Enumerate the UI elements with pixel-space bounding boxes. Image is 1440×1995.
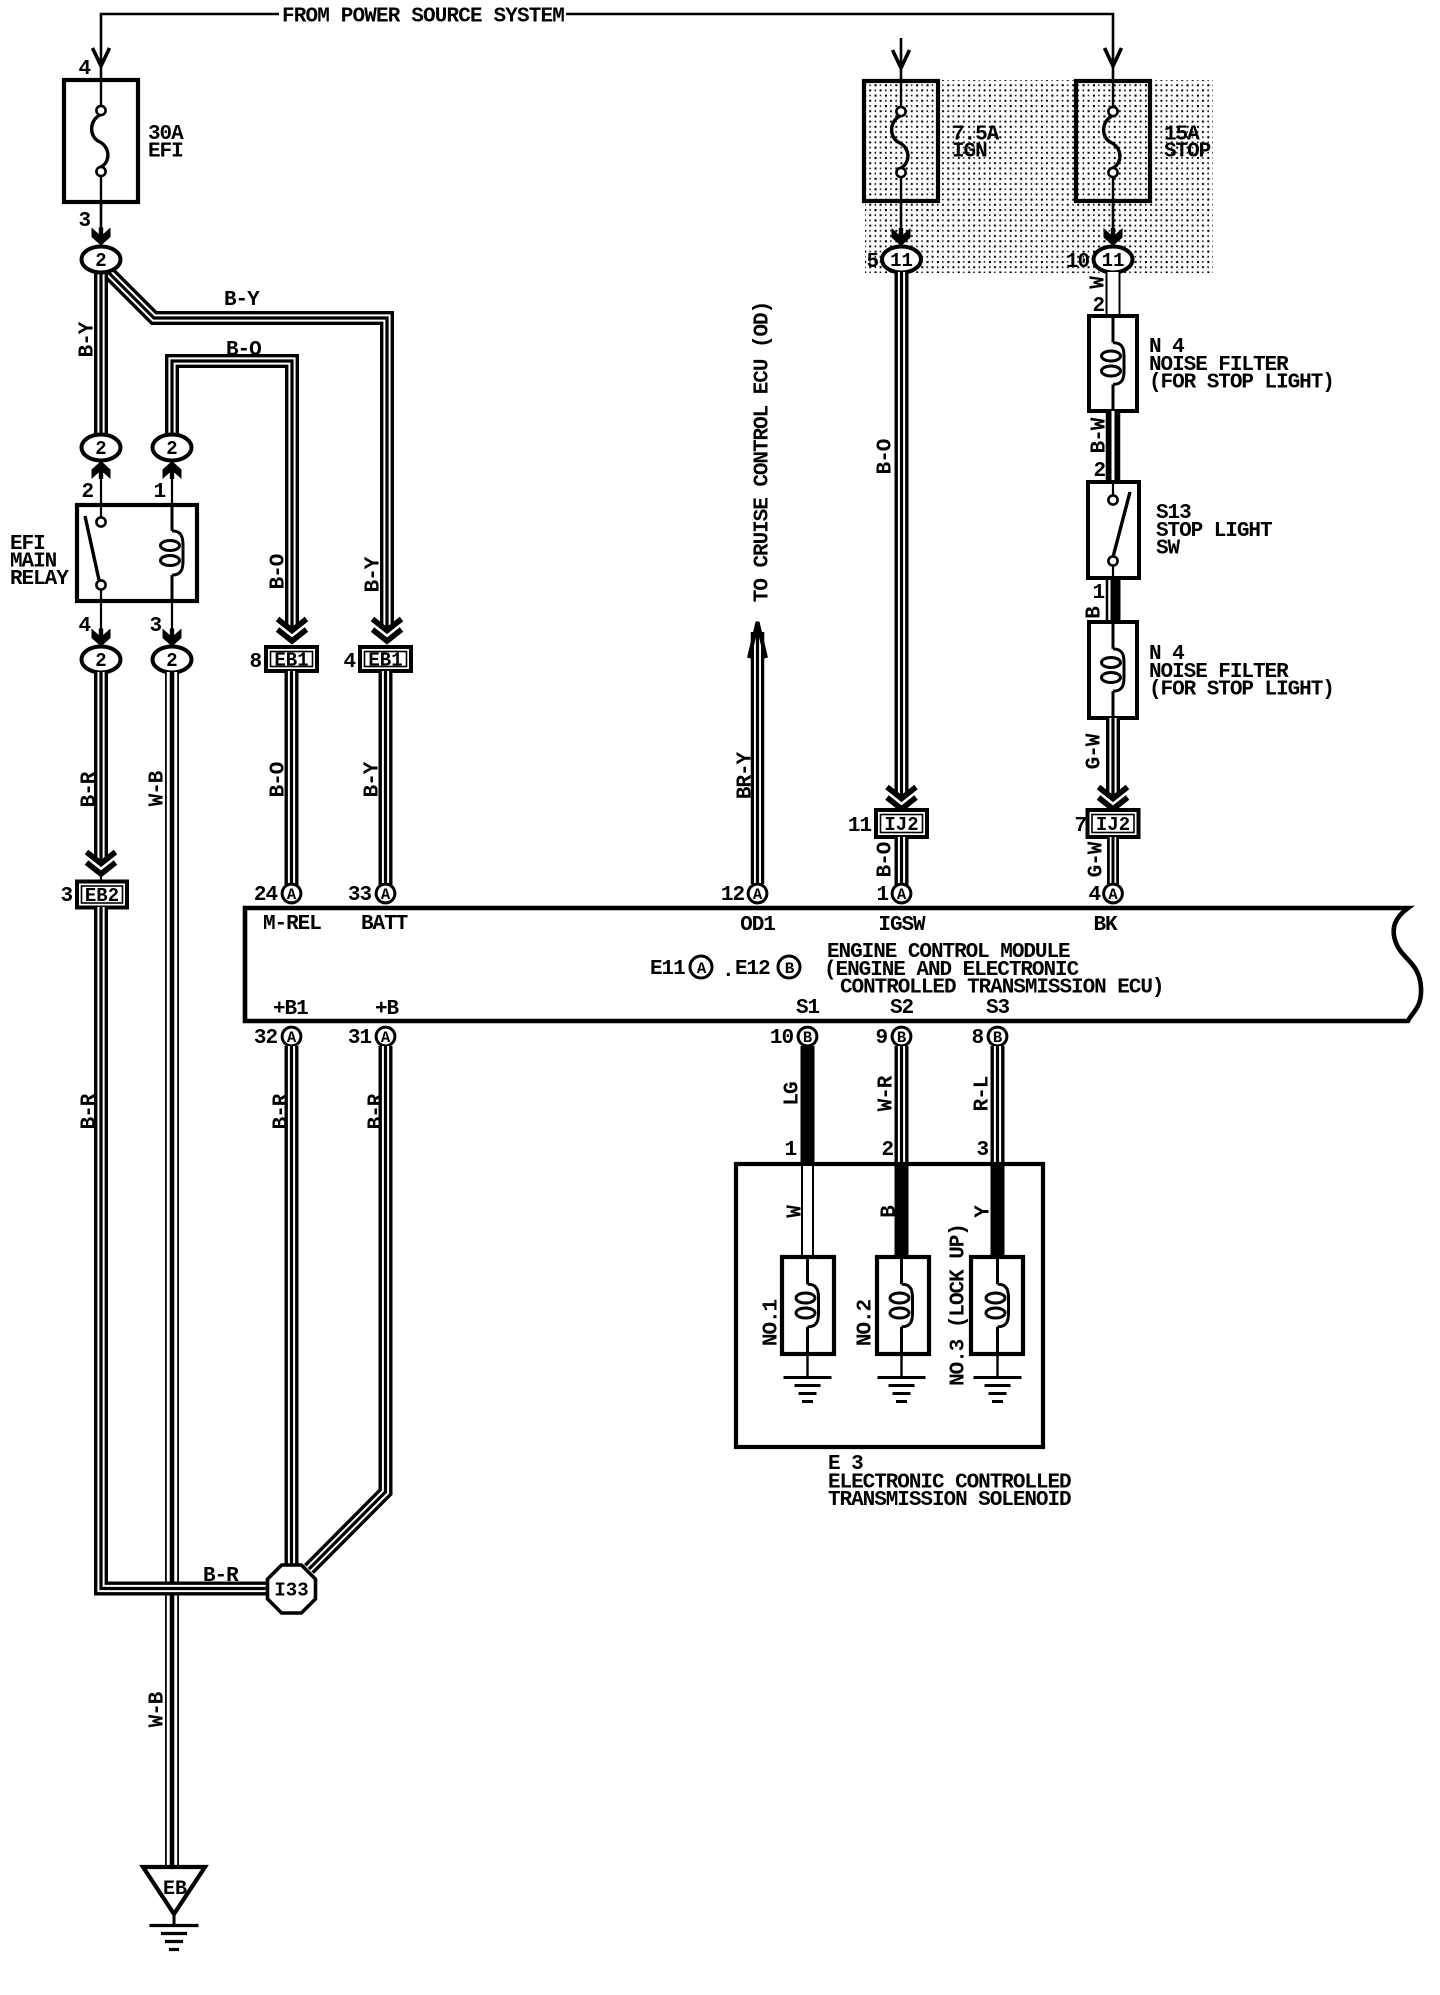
ECU box outline	[245, 908, 1421, 1021]
svg-text:2: 2	[81, 481, 93, 504]
ECU pin 31 +B	[376, 1027, 395, 1047]
svg-text:R-L: R-L	[972, 1076, 995, 1111]
svg-text:4: 4	[343, 651, 355, 674]
wire BR-Y from OD1	[751, 632, 765, 884]
svg-text:1: 1	[784, 1139, 796, 1162]
svg-text:G-W: G-W	[1086, 841, 1109, 877]
svg-text:A: A	[897, 886, 907, 904]
ground EB triangle	[143, 1867, 205, 1914]
svg-text:S2: S2	[890, 997, 914, 1020]
connector node 11 (IGN)	[882, 247, 921, 273]
svg-text:RELAY: RELAY	[10, 568, 69, 591]
svg-text:1: 1	[1092, 582, 1104, 605]
wire G-W filter to IJ2	[1106, 718, 1120, 796]
junction connector 3 EB2	[77, 882, 127, 908]
svg-text:IGSW: IGSW	[878, 914, 926, 937]
svg-text:IJ2: IJ2	[884, 814, 918, 836]
arrow into node	[892, 228, 911, 246]
wire W-B to ground	[165, 672, 179, 1866]
arrow into 7 IJ2	[1099, 787, 1128, 809]
junction I33 octagon	[268, 1565, 316, 1613]
junction connector 4 EB1	[360, 647, 411, 672]
svg-text:4: 4	[78, 58, 90, 81]
ECU pin 33 BATT	[376, 884, 395, 904]
svg-text:Y: Y	[973, 1205, 996, 1218]
wire - fuse to connector	[100, 202, 103, 232]
svg-text:IJ2: IJ2	[1096, 814, 1130, 836]
svg-text:2: 2	[166, 650, 177, 672]
svg-text:11: 11	[890, 250, 913, 272]
svg-text:31: 31	[348, 1027, 372, 1050]
svg-text:NO.3 (LOCK UP): NO.3 (LOCK UP)	[948, 1224, 971, 1386]
junction connector 7 IJ2	[1088, 810, 1139, 837]
svg-text:B: B	[785, 960, 795, 978]
fuse 30A EFI	[64, 80, 138, 202]
connector node 2 (W-B)	[153, 647, 192, 673]
arrow into 4 EB1	[373, 619, 402, 641]
wire LG S1 (thick)	[801, 1046, 815, 1163]
wire - relay pin 4 down	[100, 589, 102, 632]
svg-text:.: .	[722, 960, 734, 983]
svg-text:B-Y: B-Y	[363, 556, 386, 592]
solenoid NO.3 coil	[986, 1259, 1009, 1352]
switch S13 contact bottom	[1108, 556, 1117, 565]
solenoid NO.1 coil box	[782, 1257, 834, 1354]
svg-text:BK: BK	[1093, 914, 1118, 937]
arrow into 8 EB1	[278, 619, 307, 641]
arrow into node	[92, 228, 111, 246]
wire B-W filter to switch	[1106, 411, 1121, 482]
svg-text:4: 4	[78, 615, 90, 638]
fuse 15A STOP	[1076, 81, 1150, 201]
svg-text:8: 8	[971, 1027, 983, 1050]
svg-text:3: 3	[60, 885, 72, 908]
wire B-O from IGN node	[895, 272, 909, 796]
svg-text:10: 10	[1066, 251, 1090, 274]
svg-text:A: A	[287, 1029, 297, 1047]
arrowhead into 30A EFI fuse	[93, 48, 110, 66]
wire B-Y branch to EB1	[104, 268, 387, 628]
svg-text:2: 2	[95, 650, 106, 672]
relay switch lever	[85, 516, 99, 580]
svg-text:1: 1	[876, 884, 888, 907]
junction connector 8 EB1	[266, 647, 317, 672]
wire B inside (S2) thick	[895, 1164, 909, 1258]
wire stub	[100, 873, 102, 882]
relay switch contact bottom	[96, 580, 105, 589]
svg-text:EB: EB	[163, 1878, 187, 1901]
svg-text:TO CRUISE CONTROL ECU (OD): TO CRUISE CONTROL ECU (OD)	[752, 302, 775, 602]
svg-text:A: A	[697, 960, 707, 978]
ECU pin 1 IGSW	[892, 884, 911, 904]
svg-text:A: A	[381, 886, 391, 904]
solenoid box E3	[736, 1164, 1043, 1447]
ground NO.3	[996, 1354, 998, 1377]
svg-text:2: 2	[166, 438, 177, 460]
solenoid NO.3 coil box	[971, 1257, 1023, 1354]
arrowhead into 15A STOP fuse	[1105, 48, 1122, 66]
svg-text:OD1: OD1	[740, 914, 775, 937]
svg-text:NO.2: NO.2	[855, 1299, 878, 1346]
svg-text:B-Y: B-Y	[224, 289, 260, 312]
wire - IGN fuse to connector	[900, 201, 903, 232]
svg-text:LG: LG	[782, 1082, 805, 1106]
svg-text:2: 2	[95, 250, 106, 272]
wire R-L S3	[991, 1046, 1005, 1163]
svg-text:B: B	[993, 1029, 1002, 1047]
svg-text:EB1: EB1	[274, 650, 308, 672]
svg-text:32: 32	[254, 1027, 278, 1050]
relay switch contact top	[96, 517, 105, 526]
svg-text:A: A	[1108, 886, 1118, 904]
svg-text:B-R: B-R	[271, 1093, 294, 1129]
svg-text:A: A	[381, 1029, 391, 1047]
arrow up into coil node	[163, 461, 182, 479]
junction connector 11 IJ2	[876, 810, 927, 837]
connector node 11 (STOP)	[1094, 247, 1133, 273]
svg-text:EFI: EFI	[148, 141, 183, 164]
connector node 2 (relay coil)	[153, 435, 192, 461]
wire W inside (S1)	[801, 1166, 814, 1258]
arrow into EB2	[87, 852, 116, 874]
wire - STOP fuse to connector	[1112, 201, 1115, 232]
svg-text:11: 11	[1102, 250, 1125, 272]
svg-text:BR-Y: BR-Y	[735, 751, 758, 799]
svg-text:S3: S3	[986, 997, 1010, 1020]
wire B switch to filter	[1106, 578, 1109, 622]
svg-text:A: A	[753, 886, 763, 904]
svg-text:4: 4	[1088, 884, 1100, 907]
wire B-Y to relay node	[94, 270, 108, 436]
wire B-Y to BATT	[379, 671, 393, 885]
ground EB symbol	[173, 1914, 176, 1926]
connector node 2 (relay switch)	[82, 435, 121, 461]
connector node 2 (fuse side)	[82, 247, 121, 273]
svg-text:W: W	[1088, 276, 1111, 289]
svg-text:10: 10	[770, 1027, 794, 1050]
svg-text:3: 3	[976, 1139, 988, 1162]
svg-text:S1: S1	[796, 997, 820, 1020]
wire B-O to M-REL	[285, 671, 299, 885]
svg-text:E12: E12	[735, 958, 770, 981]
connector node 2 (B-R)	[82, 647, 121, 673]
arrowhead to cruise control	[749, 622, 766, 660]
svg-text:5: 5	[866, 251, 878, 274]
switch S13 lever	[1113, 492, 1130, 557]
svg-text:M-REL: M-REL	[263, 913, 321, 936]
arrow into node	[1104, 228, 1123, 246]
wire W node to filter	[1106, 272, 1121, 316]
svg-text:B-Y: B-Y	[362, 761, 385, 797]
svg-text:BATT: BATT	[361, 913, 408, 936]
switch S13 contact top	[1108, 495, 1117, 504]
noise filter N4 upper coil	[1102, 318, 1125, 409]
svg-text:2: 2	[881, 1139, 893, 1162]
wire B-O to EB1	[172, 361, 292, 628]
svg-text:+B: +B	[375, 998, 400, 1021]
svg-text:33: 33	[348, 884, 372, 907]
noise filter N4 lower box	[1089, 622, 1137, 718]
svg-text:B: B	[803, 1029, 812, 1047]
switch S13 box	[1088, 482, 1139, 578]
svg-text:2: 2	[1093, 460, 1105, 483]
svg-text:9: 9	[875, 1027, 887, 1050]
svg-text:B-R: B-R	[366, 1093, 389, 1129]
svg-text:NO.1: NO.1	[761, 1299, 784, 1346]
arrow into 11 IJ2	[887, 787, 916, 809]
wire B-R from +B to I33	[309, 1046, 386, 1569]
fuse 7.5A IGN	[864, 81, 938, 201]
svg-text:3: 3	[78, 210, 90, 233]
wire - node to relay pin 1	[171, 478, 173, 527]
wire B-O to IGSW	[895, 837, 909, 885]
relay coil	[161, 505, 184, 601]
wire Y inside (S3) thick	[991, 1164, 1005, 1258]
wire W-R S2	[895, 1046, 909, 1163]
svg-text:B-O: B-O	[226, 339, 261, 362]
svg-text:B: B	[1084, 606, 1107, 619]
wire B-R from +B1 to I33	[285, 1046, 299, 1567]
svg-text:W-B: W-B	[147, 770, 170, 806]
svg-text:B-O: B-O	[268, 762, 291, 797]
wire B-R to I33	[101, 907, 267, 1589]
wire B-R to EB2	[94, 672, 108, 861]
noise filter N4 lower coil	[1102, 624, 1125, 716]
svg-text:(FOR STOP LIGHT): (FOR STOP LIGHT)	[1149, 372, 1334, 395]
svg-text:E11: E11	[650, 958, 685, 981]
wire G-W to BK	[1107, 837, 1119, 885]
svg-text:EB2: EB2	[85, 885, 119, 907]
svg-text:B-R: B-R	[79, 771, 102, 807]
ECU pin 32 +B1	[282, 1027, 301, 1047]
svg-text:EB1: EB1	[368, 650, 402, 672]
arrow up into switch node	[92, 461, 111, 479]
svg-text:11: 11	[848, 815, 872, 838]
ECU pin 9 S2	[892, 1027, 911, 1047]
svg-text:IGN: IGN	[952, 141, 987, 164]
svg-text:3: 3	[149, 615, 161, 638]
svg-text:+B1: +B1	[273, 998, 308, 1021]
arrow down to node	[163, 629, 182, 647]
svg-text:B-R: B-R	[79, 1093, 102, 1129]
svg-text:B-O: B-O	[875, 842, 898, 877]
stipple highlight background	[865, 80, 1213, 273]
svg-text:B: B	[879, 1205, 902, 1218]
wire - FROM POWER SOURCE SYSTEM feed line	[101, 14, 279, 66]
svg-text:B-W: B-W	[1089, 417, 1112, 453]
svg-text:B: B	[897, 1029, 906, 1047]
wire - relay pin 3 down	[171, 601, 173, 632]
noise filter N4 upper box	[1089, 316, 1137, 411]
svg-text:B-O: B-O	[875, 439, 898, 474]
relay EFI MAIN RELAY box	[77, 505, 197, 601]
svg-text:24: 24	[254, 884, 278, 907]
svg-text:(FOR STOP LIGHT): (FOR STOP LIGHT)	[1149, 679, 1334, 702]
svg-text:12: 12	[721, 884, 745, 907]
ECU pin 10 S1	[798, 1027, 817, 1047]
svg-text:W-B: W-B	[147, 1691, 170, 1727]
solenoid NO.1 coil	[796, 1259, 819, 1352]
ECU pin 8 S3	[988, 1027, 1007, 1047]
ECU pin 4 BK	[1104, 884, 1123, 904]
svg-text:W-R: W-R	[876, 1075, 899, 1111]
svg-text:B-Y: B-Y	[77, 321, 100, 357]
wire stubs S13	[1112, 482, 1114, 496]
svg-text:FROM POWER SOURCE SYSTEM: FROM POWER SOURCE SYSTEM	[282, 6, 564, 29]
svg-text:2: 2	[95, 438, 106, 460]
svg-text:I33: I33	[274, 1580, 308, 1602]
svg-text:W: W	[785, 1205, 808, 1218]
svg-text:G-W: G-W	[1084, 733, 1107, 769]
svg-text:8: 8	[249, 651, 261, 674]
wire - fuse feed stub left	[100, 62, 103, 80]
ECU pin 24 M-REL	[282, 884, 301, 904]
wire - node to relay pin 2	[100, 478, 102, 517]
svg-text:A: A	[287, 886, 297, 904]
svg-text:STOP: STOP	[1164, 141, 1211, 164]
svg-text:B-O: B-O	[268, 554, 291, 589]
ground NO.2	[900, 1354, 902, 1377]
arrow down to node	[92, 629, 111, 647]
solenoid NO.2 coil box	[877, 1257, 929, 1354]
svg-text:SW: SW	[1156, 538, 1181, 561]
svg-text:1: 1	[153, 481, 165, 504]
arrowhead into 7.5A IGN fuse	[893, 50, 910, 68]
ground NO.1	[806, 1354, 808, 1377]
ECU pin 12 OD1	[748, 884, 767, 904]
svg-text:B-R: B-R	[203, 1565, 239, 1588]
svg-text:7: 7	[1074, 815, 1086, 838]
solenoid NO.2 coil	[890, 1259, 913, 1352]
svg-text:TRANSMISSION SOLENOID: TRANSMISSION SOLENOID	[828, 1489, 1071, 1512]
